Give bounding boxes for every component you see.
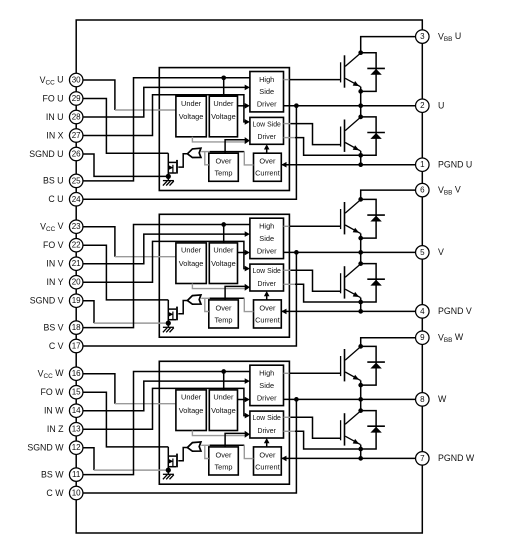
pin 4 (PGND V): [416, 305, 430, 319]
wire Under Voltage 1 fault to Low Side Driver (phase U): [192, 137, 245, 142]
svg-text:High: High: [259, 75, 274, 84]
node low IGBT emitter (phase V): [358, 300, 363, 305]
svg-text:High: High: [259, 221, 274, 230]
svg-text:Over: Over: [259, 450, 276, 459]
svg-text:Under: Under: [181, 99, 202, 108]
pin 28 (IN U): [69, 110, 83, 124]
wire Over Temp to Low Side Driver (phase U): [225, 140, 245, 154]
node BS W / UV2 feed junction: [221, 369, 226, 374]
svg-text:8: 8: [420, 395, 425, 404]
svg-text:17: 17: [72, 342, 81, 351]
wire low emitter to PGND U: [360, 151, 362, 165]
svg-text:14: 14: [72, 406, 81, 415]
pin 10 (C W): [69, 486, 83, 500]
driver block outline (phase V control IC): [159, 214, 289, 337]
wire FO U (pin 29) to fault MOSFET drain: [76, 99, 168, 154]
wire low IGBT collector to W output: [360, 399, 362, 411]
svg-text:25: 25: [72, 176, 81, 185]
fault output MOSFET (open drain, phase U): [168, 153, 177, 176]
pin 22 (FO V): [69, 238, 83, 252]
wire VCC V (pin 23) to Under Voltage 1: [76, 227, 115, 257]
svg-text:26: 26: [72, 150, 81, 159]
svg-text:IN U: IN U: [46, 112, 64, 122]
ground symbol (SGND U): [163, 176, 174, 185]
node BS U / UV2 feed junction: [221, 75, 226, 80]
svg-text:9: 9: [420, 333, 425, 342]
svg-text:22: 22: [72, 241, 81, 250]
wire Low Side Driver emitter sense (phase W): [284, 430, 296, 432]
svg-text:Voltage: Voltage: [211, 259, 236, 268]
svg-text:Over: Over: [215, 303, 232, 312]
svg-text:IN W: IN W: [44, 406, 64, 416]
node BS V / UV2 feed junction: [221, 222, 226, 227]
svg-text:3: 3: [420, 32, 425, 41]
pin 5 (V output): [416, 246, 430, 260]
box Over Temp (phase U): [209, 153, 239, 181]
svg-text:Low Side: Low Side: [253, 121, 282, 128]
pin 14 (IN W): [69, 404, 83, 418]
wire high emitter to W output: [360, 380, 362, 399]
box High Side Driver (phase V): [250, 218, 284, 258]
wire IN X (pin 27) to Low Side Driver input: [76, 95, 245, 136]
svg-text:23: 23: [72, 222, 81, 231]
wire Over Current to OR gate (phase V): [201, 297, 210, 299]
wire low IGBT collector to V output: [360, 252, 362, 264]
wire high IGBT collector to VBB V (pin 6): [361, 190, 416, 199]
svg-text:W: W: [438, 394, 447, 404]
pin 30 (VCC U): [69, 73, 83, 87]
svg-text:SGND U: SGND U: [29, 149, 63, 159]
wire VCC U (pin 30) to Under Voltage 1: [76, 80, 115, 110]
IGBT high side (phase W): [341, 347, 361, 382]
svg-text:Driver: Driver: [258, 134, 277, 141]
wire High Side Driver to high IGBT gate (phase U): [284, 79, 290, 81]
svg-text:10: 10: [72, 489, 81, 498]
node high IGBT collector / diode (phase W): [358, 344, 363, 349]
box Low Side Driver (phase W): [250, 411, 284, 438]
IGBT low side (phase W): [341, 411, 361, 446]
wire PGND V line (pin 4) with Over Current sense: [281, 310, 415, 312]
node high IGBT collector / diode (phase V): [358, 197, 363, 202]
node bootstrap C junction (phase U): [294, 103, 299, 108]
wire PGND W line (pin 7) with Over Current sense: [281, 457, 415, 459]
svg-text:29: 29: [72, 94, 81, 103]
wire Over Current to OR gate (phase W): [201, 444, 210, 446]
svg-text:IN V: IN V: [46, 259, 63, 269]
pin 13 (IN Z): [69, 422, 83, 436]
svg-text:FO U: FO U: [42, 93, 63, 103]
box Under Voltage 1 (phase U low side): [176, 96, 206, 137]
node PGND W junction: [358, 456, 363, 461]
IGBT low side (phase U): [341, 117, 361, 151]
node low IGBT emitter (phase W): [358, 447, 363, 452]
freewheel diode high side (phase W): [361, 346, 385, 385]
svg-text:PGND V: PGND V: [438, 306, 472, 316]
wire FO V (pin 22) to fault MOSFET drain: [76, 245, 168, 300]
svg-text:Over: Over: [215, 157, 232, 166]
wire Over Temp to OR gate (phase U): [205, 152, 209, 165]
svg-text:C W: C W: [46, 488, 64, 498]
wire high emitter to U output: [360, 87, 362, 106]
svg-text:12: 12: [72, 443, 81, 452]
box Over Current (phase V): [254, 300, 282, 328]
pin 6 (VBB V): [416, 183, 430, 197]
node SGND W (MOSFET source): [166, 468, 171, 473]
wire High Side Driver to high IGBT gate (phase V): [284, 225, 290, 227]
svg-text:High: High: [259, 368, 274, 377]
svg-text:FO V: FO V: [43, 240, 64, 250]
freewheel diode high side (phase U): [361, 53, 385, 92]
svg-text:C U: C U: [48, 194, 63, 204]
wire Under Voltage 2 to High Side Driver (phase W): [238, 399, 246, 401]
box Over Temp (phase W): [209, 447, 239, 475]
svg-text:FO W: FO W: [41, 387, 65, 397]
svg-text:Under: Under: [181, 393, 202, 402]
box High Side Driver (phase U): [250, 72, 284, 112]
svg-text:Temp: Temp: [214, 169, 232, 178]
svg-text:Temp: Temp: [214, 462, 232, 471]
wire BS U (pin 25) to High Side Driver supply: [76, 78, 250, 181]
driver block outline (phase U control IC): [159, 68, 289, 191]
box Under Voltage 2 (phase W high side): [209, 390, 237, 431]
svg-text:Current: Current: [255, 462, 280, 471]
svg-text:1: 1: [420, 160, 425, 169]
node bootstrap C junction (phase W): [294, 397, 299, 402]
node high IGBT emitter (phase V): [358, 236, 363, 241]
box High Side Driver (phase W): [250, 365, 284, 405]
svg-text:Under: Under: [213, 393, 234, 402]
IGBT high side (phase U): [341, 53, 361, 87]
pin 18 (BS V): [69, 321, 83, 335]
svg-text:U: U: [438, 101, 444, 111]
module outline (package boundary): [76, 20, 422, 533]
node bootstrap C junction (phase V): [294, 250, 299, 255]
box Over Current (phase U): [254, 153, 282, 181]
svg-text:SGND W: SGND W: [27, 443, 64, 453]
wire BS V (pin 18) to High Side Driver supply: [76, 225, 250, 328]
wire OR gate to fault MOSFET gate (phase W): [178, 448, 187, 461]
svg-text:Voltage: Voltage: [179, 112, 204, 121]
node low IGBT collector / diode (phase W): [358, 408, 363, 413]
pin 25 (BS U): [69, 174, 83, 188]
svg-text:Driver: Driver: [257, 393, 277, 402]
freewheel diode high side (phase V): [361, 199, 385, 238]
wire FO W (pin 15) to fault MOSFET drain: [76, 392, 168, 447]
wire IN Y (pin 20) to Low Side Driver input: [76, 241, 245, 282]
pin 20 (IN Y): [69, 275, 83, 289]
svg-text:16: 16: [72, 369, 81, 378]
node low IGBT emitter (phase U): [358, 153, 363, 158]
pin 2 (U output): [416, 99, 430, 113]
svg-text:PGND U: PGND U: [438, 160, 472, 170]
box Low Side Driver (phase U): [250, 117, 284, 144]
box Over Current (phase W): [254, 447, 282, 475]
wire U output line (High Side Driver / emitter to pin 2): [284, 105, 416, 107]
svg-text:Over: Over: [259, 303, 276, 312]
wire Under Voltage 2 to High Side Driver (phase U): [238, 105, 246, 107]
pin 23 (VCC V): [69, 220, 83, 234]
wire Over Temp to OR gate (phase W): [205, 445, 209, 458]
wire Over Temp to OR gate (phase V): [205, 298, 209, 311]
svg-text:30: 30: [72, 76, 81, 85]
pin 26 (SGND U): [69, 147, 83, 161]
wire VCC W (pin 16) to Under Voltage 1: [76, 374, 115, 404]
pin 16 (VCC W): [69, 367, 83, 381]
svg-text:V: V: [438, 247, 444, 257]
wire low emitter to PGND W: [360, 445, 362, 459]
svg-text:C V: C V: [49, 341, 64, 351]
svg-text:24: 24: [72, 195, 81, 204]
wire Low Side Driver to low IGBT gate (phase U): [284, 123, 291, 125]
OR gate (fault logic, phase U): [187, 148, 201, 157]
wire Over Temp to Low Side Driver (phase W): [225, 433, 245, 447]
node low IGBT collector / diode (phase V): [358, 261, 363, 266]
pin 29 (FO U): [69, 92, 83, 106]
pin 8 (W output): [416, 393, 430, 407]
wire C V (pin 17) bootstrap return to output node: [76, 252, 296, 346]
wire OR gate to fault MOSFET gate (phase V): [178, 301, 187, 314]
wire W output line (High Side Driver / emitter to pin 8): [284, 398, 416, 400]
wire Over Current to Low Side Driver (phase V): [266, 295, 268, 300]
node U output / high emitter junction: [358, 103, 363, 108]
wire Low Side Driver to low IGBT gate (phase W): [284, 416, 291, 418]
pin 27 (IN X): [69, 129, 83, 143]
svg-text:Driver: Driver: [258, 428, 277, 435]
svg-text:Voltage: Voltage: [179, 259, 204, 268]
wire Under Voltage 2 to High Side Driver (phase V): [238, 252, 246, 254]
svg-text:PGND W: PGND W: [438, 453, 475, 463]
svg-text:27: 27: [72, 131, 81, 140]
svg-text:Over: Over: [215, 450, 232, 459]
wire PGND U line (pin 1) with Over Current sense: [281, 164, 415, 166]
svg-text:Voltage: Voltage: [211, 406, 236, 415]
node V output / high emitter junction: [358, 250, 363, 255]
box Low Side Driver (phase V): [250, 264, 284, 291]
svg-text:4: 4: [420, 307, 425, 316]
svg-text:Under: Under: [181, 246, 202, 255]
wire C U (pin 24) bootstrap return to output node: [76, 106, 296, 200]
svg-text:IN Z: IN Z: [47, 424, 64, 434]
svg-text:21: 21: [72, 259, 81, 268]
svg-text:Side: Side: [259, 234, 274, 243]
wire Over Current to Low Side Driver (phase W): [266, 442, 268, 447]
pin 12 (SGND W): [69, 441, 83, 455]
wire SGND W (pin 12) to ground node: [76, 448, 94, 470]
node low IGBT collector / diode (phase U): [358, 115, 363, 120]
wire Low Side Driver to low IGBT gate (phase V): [284, 269, 291, 271]
svg-text:SGND V: SGND V: [30, 296, 64, 306]
svg-text:Over: Over: [259, 157, 276, 166]
driver block outline (phase W control IC): [159, 361, 289, 484]
pin 9 (VBB W): [416, 331, 430, 345]
wire IN V (pin 21) to High Side Driver input: [76, 234, 245, 264]
wire high IGBT collector to VBB W (pin 9): [361, 338, 416, 347]
svg-text:13: 13: [72, 425, 81, 434]
svg-text:BS V: BS V: [43, 322, 63, 332]
svg-text:7: 7: [420, 454, 425, 463]
wire Under Voltage 1 fault to Low Side Driver (phase W): [192, 431, 245, 436]
freewheel diode low side (phase U): [361, 117, 385, 155]
ground symbol (SGND W): [163, 470, 174, 479]
svg-text:Side: Side: [259, 87, 274, 96]
svg-text:Voltage: Voltage: [179, 406, 204, 415]
pin 24 (C U): [69, 193, 83, 207]
wire low IGBT collector to U output: [360, 106, 362, 118]
node W output / high emitter junction: [358, 397, 363, 402]
svg-text:Driver: Driver: [257, 100, 277, 109]
pin 11 (BS W): [69, 468, 83, 482]
box Under Voltage 1 (phase V low side): [176, 243, 206, 284]
pin 19 (SGND V): [69, 294, 83, 308]
svg-text:BS W: BS W: [41, 469, 64, 479]
IGBT high side (phase V): [341, 200, 361, 235]
node high IGBT emitter (phase W): [358, 383, 363, 388]
svg-text:20: 20: [72, 278, 81, 287]
svg-text:Low Side: Low Side: [253, 268, 282, 275]
IGBT low side (phase V): [341, 264, 361, 299]
pin 1 (PGND U): [416, 158, 430, 172]
node SGND U (MOSFET source): [166, 174, 171, 179]
svg-text:19: 19: [72, 296, 81, 305]
pin 21 (IN V): [69, 257, 83, 271]
pin 17 (C V): [69, 339, 83, 353]
wire high emitter to V output: [360, 233, 362, 252]
wire Low Side Driver emitter sense (phase V): [284, 283, 296, 285]
pin 7 (PGND W): [416, 452, 430, 466]
node high IGBT collector / diode (phase U): [358, 50, 363, 55]
wire Under Voltage 1 fault to Low Side Driver (phase V): [192, 284, 245, 289]
svg-text:Under: Under: [213, 246, 234, 255]
box Under Voltage 2 (phase V high side): [209, 243, 237, 284]
svg-text:28: 28: [72, 113, 81, 122]
wire high IGBT collector to VBB U (pin 3): [361, 37, 416, 53]
box Under Voltage 2 (phase U high side): [209, 96, 237, 137]
svg-text:BS U: BS U: [43, 176, 64, 186]
svg-text:Current: Current: [255, 169, 280, 178]
box Under Voltage 1 (phase W low side): [176, 390, 206, 431]
svg-text:11: 11: [72, 470, 81, 479]
wire low emitter to PGND V: [360, 298, 362, 312]
svg-text:6: 6: [420, 186, 425, 195]
node SGND V (MOSFET source): [166, 321, 171, 326]
svg-text:Under: Under: [213, 99, 234, 108]
svg-text:Current: Current: [255, 315, 280, 324]
svg-text:Voltage: Voltage: [211, 112, 236, 121]
freewheel diode low side (phase W): [361, 411, 385, 449]
wire SGND U (pin 26) to ground node: [76, 154, 168, 176]
wire Over Current to Low Side Driver (phase U): [266, 149, 268, 154]
svg-text:IN X: IN X: [46, 130, 63, 140]
wire IN W (pin 14) to High Side Driver input: [76, 381, 245, 411]
wire High Side Driver to high IGBT gate (phase W): [284, 372, 290, 374]
svg-text:18: 18: [72, 323, 81, 332]
node high IGBT emitter (phase U): [358, 89, 363, 94]
wire Over Current to OR gate (phase U): [201, 151, 210, 153]
fault output MOSFET (open drain, phase W): [168, 447, 177, 470]
svg-text:2: 2: [420, 101, 425, 110]
svg-text:Driver: Driver: [258, 281, 277, 288]
wire V output line (High Side Driver / emitter to pin 5): [284, 251, 416, 253]
svg-text:15: 15: [72, 388, 81, 397]
svg-text:Side: Side: [259, 381, 274, 390]
svg-text:Temp: Temp: [214, 315, 232, 324]
node PGND V junction: [358, 309, 363, 314]
OR gate (fault logic, phase W): [187, 442, 201, 451]
ground symbol (SGND V): [163, 323, 174, 332]
wire BS W (pin 11) to High Side Driver supply: [76, 372, 250, 475]
wire IN Z (pin 13) to Low Side Driver input: [76, 388, 245, 429]
wire OR gate to fault MOSFET gate (phase U): [178, 154, 187, 167]
OR gate (fault logic, phase V): [187, 295, 201, 304]
svg-text:5: 5: [420, 248, 425, 257]
svg-text:Driver: Driver: [257, 246, 277, 255]
wire IN U (pin 28) to High Side Driver input: [76, 87, 245, 117]
node PGND U junction: [358, 162, 363, 167]
box Over Temp (phase V): [209, 300, 239, 328]
freewheel diode low side (phase V): [361, 264, 385, 302]
pin 3 (VBB U): [416, 30, 430, 44]
wire SGND V (pin 19) to ground node: [76, 301, 94, 323]
svg-text:Low Side: Low Side: [253, 415, 282, 422]
svg-text:IN Y: IN Y: [47, 277, 64, 287]
pin 15 (FO W): [69, 385, 83, 399]
wire Over Temp to Low Side Driver (phase V): [225, 286, 245, 300]
wire C W (pin 10) bootstrap return to output node: [76, 399, 296, 493]
wire Low Side Driver emitter sense (phase U): [284, 137, 296, 139]
fault output MOSFET (open drain, phase V): [168, 300, 177, 323]
